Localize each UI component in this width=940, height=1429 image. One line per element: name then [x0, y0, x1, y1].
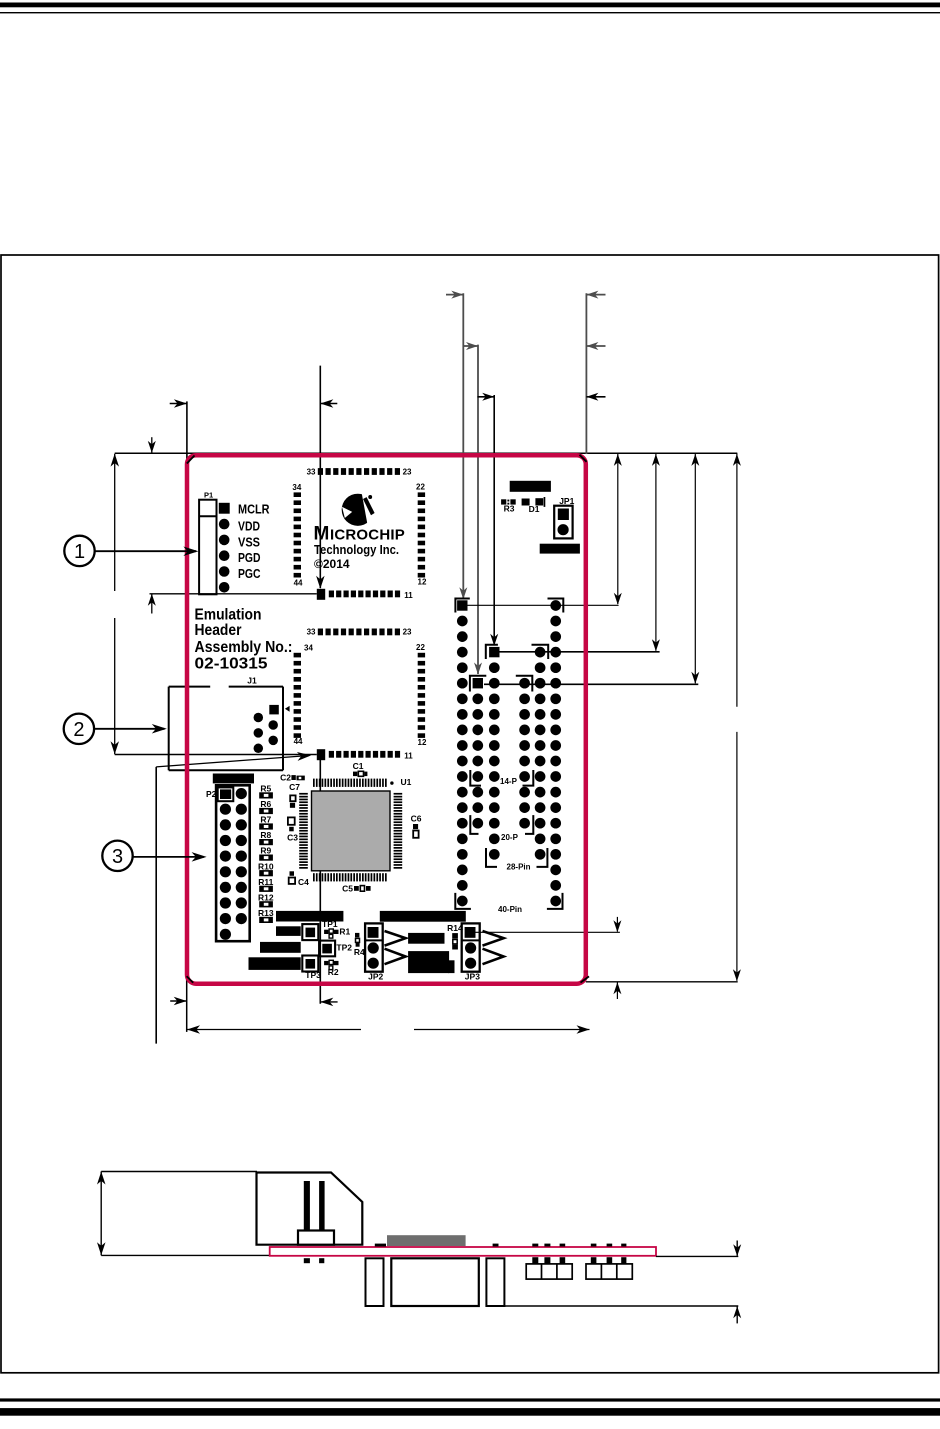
side view: right up arrow — [736, 1306, 738, 1323]
J1 pads — [254, 713, 264, 723]
DIP bracket 40-Pin left — [455, 893, 471, 909]
svg-text:34: 34 — [292, 483, 301, 492]
DIP bracket 28-Pin right — [537, 848, 548, 867]
dim: vertical at QFP pin column x=320.3 — [319, 366, 321, 588]
U1 right pin comb — [394, 793, 403, 795]
svg-text:C7: C7 — [289, 782, 300, 792]
dim: arrow row y=396.8 black — [478, 396, 495, 398]
svg-text:C3: C3 — [287, 833, 298, 843]
svg-text:TP2: TP2 — [336, 942, 352, 952]
figure frame — [1, 255, 939, 1373]
trace rect long top — [380, 911, 466, 922]
P1 pads — [219, 519, 230, 530]
dim: long vertical leader at x=156.2 — [155, 767, 157, 1044]
dim: black vertical C to DIP pad C4 — [493, 395, 495, 645]
dim: left arrow to TP column — [320, 1001, 337, 1003]
QFP right column pads — [418, 492, 425, 497]
capacitor C4 — [290, 871, 295, 876]
dim: right vertical 1 to DIP row1 — [617, 453, 619, 604]
svg-text:R2: R2 — [328, 967, 339, 977]
DIP bracket row6 left — [470, 676, 486, 692]
svg-text:02-10315: 02-10315 — [195, 656, 268, 673]
svg-text:28-Pin: 28-Pin — [507, 863, 531, 872]
svg-text:D1: D1 — [529, 504, 540, 514]
dim: horizontal line to QFP2 pin 11 pad — [115, 754, 317, 756]
page footer thick rule — [0, 1408, 940, 1416]
svg-text:JP1: JP1 — [559, 496, 574, 506]
svg-text:C6: C6 — [411, 813, 422, 823]
dim: board bottom edge extension right — [586, 981, 738, 983]
U1 pin1 dot and label — [390, 781, 393, 784]
side view: top extension line — [101, 1171, 257, 1173]
dim: right vertical 3 to DIP row6 — [694, 453, 696, 683]
DIP bracket row4 left — [486, 645, 498, 659]
dim: up arrow below bottom edge at x=617.4 — [616, 982, 618, 999]
svg-text:20-P: 20-P — [501, 833, 519, 842]
dim: right arrow to board left edge — [170, 1000, 187, 1002]
DIP square pad C4 — [489, 647, 499, 657]
svg-text:12: 12 — [418, 578, 427, 587]
svg-text:R12: R12 — [258, 892, 274, 902]
svg-text:U1: U1 — [401, 777, 412, 787]
resistor R3 pads — [501, 499, 506, 504]
dim: line from DIP row6 to right — [484, 683, 698, 685]
side view: socket wide box — [391, 1258, 479, 1306]
svg-text:R8: R8 — [260, 830, 271, 840]
QFP left column pads — [294, 492, 301, 497]
dim: board top edge extension line — [115, 452, 738, 454]
DIP bracket 14-P left — [470, 770, 481, 786]
svg-text:P2: P2 — [206, 789, 217, 799]
svg-text:33: 33 — [307, 628, 316, 637]
side view: bottom extension line — [504, 1305, 738, 1307]
svg-text:PGC: PGC — [238, 566, 261, 581]
dim: gray vertical D at board right edge — [585, 293, 587, 454]
DIP bracket 28-Pin left — [486, 848, 497, 867]
QFP right column pads — [418, 653, 425, 658]
side view: pin base — [298, 1231, 334, 1245]
side view: board bottom extension line left — [101, 1254, 270, 1256]
svg-text:TP3: TP3 — [305, 970, 321, 980]
svg-text:22: 22 — [416, 483, 425, 492]
side view: connector body — [257, 1173, 363, 1245]
J1 pin 1 square pad — [269, 705, 279, 715]
trace rect below JP1 — [540, 544, 580, 554]
trace rects bottom-left — [276, 911, 343, 922]
svg-text:1: 1 — [74, 541, 85, 563]
svg-text:R13: R13 — [258, 908, 274, 918]
svg-text:PGD: PGD — [238, 550, 261, 565]
svg-text:©2014: ©2014 — [314, 557, 350, 571]
dim: diagonal leader to QFP2 pin 11 — [156, 756, 309, 767]
resistor R4 — [355, 933, 359, 938]
dim: line from DIP row1 to right — [468, 604, 619, 606]
svg-text:R1: R1 — [339, 926, 350, 936]
JP3 chevrons — [483, 931, 504, 946]
test point TP3 — [302, 956, 318, 972]
svg-text:JP2: JP2 — [368, 971, 383, 981]
dim: line from DIP row4 to right — [500, 651, 660, 653]
U1 body — [312, 791, 391, 871]
P1 square pad MCLR — [219, 503, 230, 514]
DIP bracket row4 right — [532, 645, 549, 659]
svg-text:TP1: TP1 — [322, 919, 338, 929]
svg-text:R7: R7 — [260, 815, 271, 825]
svg-text:J1: J1 — [247, 676, 257, 686]
Microchip logo icon — [342, 492, 379, 528]
trace rect above P2 — [213, 774, 254, 784]
callout 3 leader — [133, 856, 204, 858]
callout 3 circle — [102, 841, 132, 871]
U1 bottom pin comb — [313, 873, 315, 881]
DIP round pads — [550, 600, 561, 611]
connector P2 outline — [216, 785, 250, 941]
DIP bracket row1 left — [455, 599, 469, 613]
side view: U1 component — [387, 1235, 466, 1246]
DIP square pad B6 — [473, 678, 483, 688]
trace rect above R3 — [510, 481, 551, 492]
board corner chamfer top-right — [580, 455, 587, 462]
dim: line from JP3 pad to right with down arrow — [476, 931, 620, 933]
side view: socket bar 2 — [486, 1258, 504, 1306]
DIP bracket row6 right — [516, 676, 533, 692]
callout 2 circle — [64, 714, 94, 744]
svg-text:JP3: JP3 — [465, 971, 480, 981]
svg-text:R5: R5 — [260, 784, 271, 794]
U1 left pin comb — [299, 793, 308, 795]
trace rect right of JP2 — [408, 933, 444, 944]
board corner chamfer top-left — [187, 456, 195, 464]
P2 pin1 square ring — [218, 787, 234, 801]
side view: pin stubs below connector — [304, 1258, 310, 1263]
svg-text:R10: R10 — [258, 861, 274, 871]
svg-text:Assembly No.:: Assembly No.: — [195, 639, 293, 656]
dim: left width arrows row — [170, 403, 187, 405]
dim: right vertical 4 to board bottom — [736, 453, 738, 707]
svg-text:23: 23 — [403, 628, 412, 637]
svg-text:C4: C4 — [298, 877, 309, 887]
svg-text:14-P: 14-P — [500, 777, 518, 786]
svg-text:MCLR: MCLR — [238, 501, 270, 516]
side view: component leads on board — [375, 1244, 386, 1247]
jumper JP3 — [462, 923, 480, 971]
callout 2 leader — [94, 728, 164, 730]
dim: gray vertical A to DIP pad A1 — [462, 293, 464, 599]
side view: pin header group 1 — [526, 1264, 572, 1279]
test point TP2 — [319, 941, 335, 957]
svg-text:VSS: VSS — [238, 534, 260, 549]
QFP top row pads — [318, 468, 323, 475]
dim: right vertical 2 to DIP row4 — [655, 453, 657, 651]
page header thick rule — [0, 3, 940, 8]
svg-text:C1: C1 — [353, 761, 364, 771]
dim: gray vertical B to DIP pad B6 — [477, 345, 479, 674]
test point TP1 — [302, 924, 318, 940]
svg-text:22: 22 — [416, 643, 425, 652]
J1 pin 1 triangle marker — [285, 706, 290, 712]
svg-text:Header: Header — [195, 622, 242, 639]
jumper JP2 — [365, 923, 383, 971]
board outline (red) — [187, 455, 586, 984]
svg-text:R4: R4 — [354, 947, 365, 957]
side view: connector pins — [304, 1181, 310, 1231]
side view: right down arrow — [736, 1241, 738, 1256]
dim: vertical below board left edge — [186, 976, 188, 1032]
dim: horizontal line to QFP1 pin 11 pad — [150, 593, 317, 595]
board corner chamfer bottom-right — [581, 976, 590, 982]
QFP bottom row pads — [317, 589, 325, 600]
QFP bottom row pads — [317, 749, 325, 760]
svg-text:2: 2 — [73, 719, 84, 741]
svg-text:44: 44 — [294, 578, 303, 587]
callout 1 leader — [95, 550, 196, 552]
board corner chamfer bottom-left — [187, 976, 194, 983]
page footer thin rule — [0, 1398, 940, 1401]
DIP square pad A1 — [457, 600, 467, 610]
dim: pin column line through U1 area — [319, 758, 321, 791]
diode D1 pads — [522, 499, 530, 506]
trace block below — [408, 951, 449, 973]
U1 top pin comb — [313, 779, 315, 787]
dim: arrow row y=346 gray — [463, 345, 478, 347]
capacitor C3 — [288, 817, 295, 824]
connector J1 outline — [169, 686, 211, 688]
dim: left vertical extension at board height — [114, 454, 116, 591]
svg-text:ICROCHIP: ICROCHIP — [330, 527, 405, 544]
DIP bracket 20-P left — [470, 815, 478, 834]
svg-text:40-Pin: 40-Pin — [498, 905, 522, 914]
svg-text:33: 33 — [307, 467, 316, 476]
svg-text:44: 44 — [294, 737, 303, 746]
svg-text:R11: R11 — [258, 877, 273, 887]
QFP left column pads — [294, 653, 301, 658]
svg-text:34: 34 — [304, 644, 313, 653]
DIP bracket row1 right — [548, 599, 564, 613]
page header thin rule — [0, 12, 940, 13]
side view: socket bar 1 — [366, 1258, 384, 1306]
resistor R1 — [324, 930, 328, 934]
dim: up arrow to P1 line — [151, 594, 153, 614]
side view: board (red) — [270, 1247, 656, 1256]
svg-text:3: 3 — [112, 846, 123, 868]
svg-text:P1: P1 — [204, 491, 213, 500]
P2 pads — [236, 788, 247, 799]
svg-text:Technology Inc.: Technology Inc. — [314, 543, 399, 557]
DIP bracket 14-P right — [523, 770, 534, 786]
resistor R2 — [324, 961, 328, 965]
svg-text:R6: R6 — [260, 799, 271, 809]
callout 1 circle — [64, 536, 94, 566]
JP2 chevrons — [385, 931, 406, 946]
dim: arrow row y=294.6 gray — [446, 294, 463, 296]
QFP top row pads — [318, 629, 323, 636]
svg-text:C5: C5 — [342, 883, 353, 893]
svg-text:R3: R3 — [504, 504, 515, 514]
dim: small down arrow at x=151.8 — [151, 437, 153, 452]
dim: vertical at board left edge — [186, 401, 188, 463]
svg-text:11: 11 — [404, 751, 413, 760]
svg-text:23: 23 — [403, 467, 412, 476]
DIP bracket 20-P right — [525, 815, 533, 834]
svg-text:C2: C2 — [280, 772, 291, 782]
svg-text:12: 12 — [418, 738, 427, 747]
side view: right board-level line — [656, 1255, 738, 1257]
svg-text:VDD: VDD — [238, 519, 260, 534]
svg-text:M: M — [314, 524, 330, 545]
svg-text:11: 11 — [404, 591, 413, 600]
svg-text:R9: R9 — [260, 846, 271, 856]
side view: left height dimension — [100, 1172, 102, 1256]
side view: pin header group 2 — [586, 1264, 632, 1279]
dim: board width dimension line — [187, 1029, 361, 1031]
connector P1 outline — [199, 500, 216, 595]
DIP bracket 40-Pin right — [547, 893, 563, 909]
svg-text:Emulation: Emulation — [195, 606, 262, 623]
